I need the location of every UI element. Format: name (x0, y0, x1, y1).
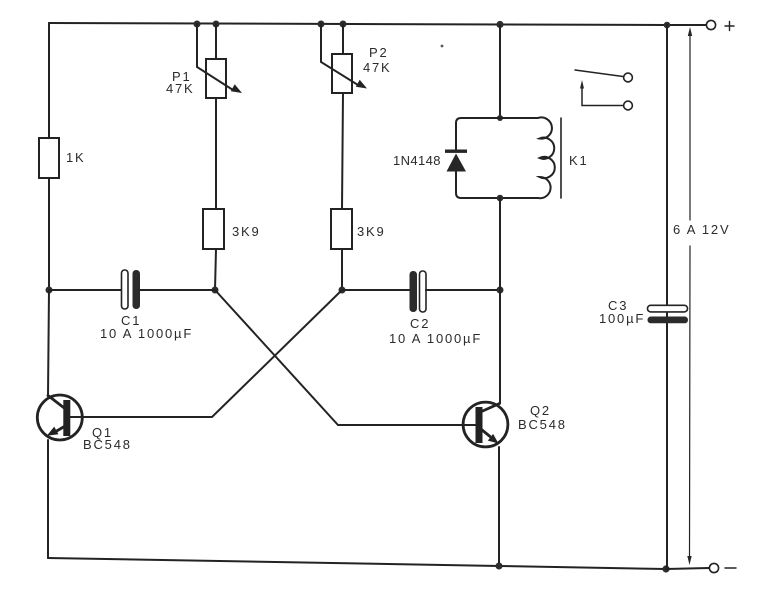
wire cross coupling node B to Q1 base (70, 290, 342, 417)
svg-text:10 A 1000µF: 10 A 1000µF (100, 326, 193, 341)
capacitor C1 positive plate (133, 270, 141, 309)
svg-text:47K: 47K (363, 60, 392, 75)
switch relay contact lever (575, 70, 623, 77)
junction dot relay rail top (496, 21, 503, 28)
relay K1 core bar (560, 118, 562, 198)
svg-text:6 A 12V: 6 A 12V (673, 222, 730, 237)
capacitor C3 top plate (648, 305, 688, 312)
wire relay to C2 node (499, 198, 501, 290)
wire Q2 collector (499, 290, 501, 403)
svg-text:1N4148: 1N4148 (393, 153, 441, 168)
wire right rail (666, 25, 668, 569)
junction dot right rail top corner (664, 22, 671, 29)
junction dot P1 top (213, 21, 220, 28)
svg-text:10 A 1000µF: 10 A 1000µF (389, 331, 482, 346)
svg-text:47K: 47K (166, 81, 195, 96)
terminal - circle (709, 563, 718, 572)
svg-text:1K: 1K (66, 150, 86, 165)
wire P2 top lead (342, 24, 344, 54)
node relay bottom junction (497, 195, 504, 202)
wire Q2 emitter to bottom rail (498, 447, 500, 566)
capacitor C2 positive plate (410, 271, 418, 312)
junction dot P1 wiper (194, 21, 201, 28)
plus sign label (725, 22, 734, 31)
wire relay rail top (499, 25, 501, 118)
svg-text:P2: P2 (369, 45, 389, 60)
svg-text:3K9: 3K9 (357, 224, 386, 239)
wire relay loop bottom (456, 171, 538, 198)
svg-text:K1: K1 (569, 153, 589, 168)
switch contact circle lower (624, 101, 633, 110)
svg-text:100µF: 100µF (599, 311, 645, 326)
wire left rail to C1 (49, 289, 122, 291)
wire 3K9 left to node A (215, 249, 216, 290)
wire C2 to relay rail (426, 289, 500, 291)
wire cross coupling node A to Q2 base (215, 290, 476, 425)
junction dot P2 top (340, 21, 347, 28)
node bottom rail Q2 junction (496, 563, 503, 570)
node bottom rail right junction (662, 565, 669, 572)
wire left rail top (48, 23, 50, 138)
potentiometer P2 body (332, 54, 352, 93)
potentiometer P1 body (206, 59, 226, 98)
capacitor C2 negative plate (420, 271, 427, 312)
wire P1 to 3K9 (215, 98, 217, 209)
node B junction (339, 287, 346, 294)
svg-text:BC548: BC548 (518, 417, 567, 432)
node C2-collector junction (497, 287, 504, 294)
wire bottom rail (48, 558, 666, 569)
capacitor C1 negative plate (122, 270, 129, 309)
potentiometer P2 wiper arrow (321, 24, 367, 89)
resistor R 3K9 left (203, 209, 224, 249)
wire Q1 collector (48, 290, 49, 396)
capacitor C3 bottom plate (648, 317, 689, 324)
svg-text:3K9: 3K9 (232, 224, 261, 239)
minus sign label (725, 567, 736, 569)
svg-text:BC548: BC548 (83, 437, 132, 452)
node relay top junction (497, 115, 503, 121)
wire left rail middle (48, 178, 50, 290)
svg-text:C2: C2 (410, 316, 430, 331)
terminal + circle (706, 20, 715, 29)
resistor R 3K9 right (331, 209, 352, 249)
wire node B to C2 (342, 289, 410, 291)
potentiometer P1 wiper arrow (197, 24, 242, 93)
wire P2 to 3K9 (342, 93, 343, 209)
dimension arrow 6A12V upper (688, 27, 692, 220)
wire relay loop top (456, 118, 538, 150)
switch actuator wire with arrow (580, 80, 624, 106)
wire 3K9 right to node B (341, 249, 343, 290)
wire P1 top lead (215, 24, 217, 59)
resistor R 1K (39, 138, 59, 178)
node A junction (212, 287, 219, 294)
wire C1 to node A (140, 289, 215, 291)
wire top rail (49, 23, 667, 25)
wire bottom rail to minus terminal (666, 568, 709, 569)
junction dot P2 wiper (318, 21, 325, 28)
transistor Q1 (37, 395, 82, 440)
speck (441, 45, 444, 48)
node left C1 junction (46, 287, 53, 294)
diode D 1N4148 (445, 150, 467, 172)
transistor Q2 (463, 402, 508, 447)
switch contact circle upper (624, 73, 633, 82)
svg-text:Q2: Q2 (530, 403, 551, 418)
dimension arrow 6A12V lower (687, 246, 691, 565)
wire Q1 emitter to bottom rail (47, 440, 49, 558)
wire top rail to plus terminal (667, 24, 706, 26)
inductor K1 coil (538, 117, 555, 198)
